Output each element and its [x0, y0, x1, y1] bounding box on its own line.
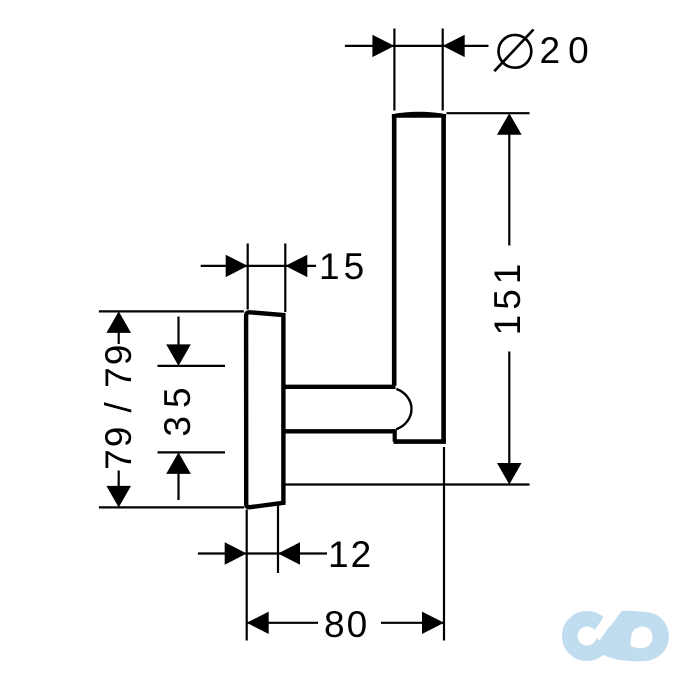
dim 35 top reference line [158, 365, 226, 367]
dim 35 bottom arrow [166, 452, 191, 474]
arm-rod fillet bulge [396, 389, 411, 429]
dim 12 extension line left [246, 510, 248, 641]
dim Ø20 right arrow [443, 35, 465, 57]
watermark logo C ring [570, 619, 605, 654]
dim 15 extension line right [284, 244, 286, 313]
dim 79/79 bottom reference line [99, 506, 244, 508]
dim 12 right arrow [278, 542, 300, 564]
dim 80 dimension line left segment [247, 622, 318, 624]
watermark logo D hole [631, 626, 653, 648]
dim 80 extension line right [443, 447, 445, 641]
wall plate outline [246, 312, 283, 507]
diameter symbol slash [494, 30, 533, 72]
dim Ø20 extension line left [393, 29, 395, 111]
dim 12 extension line right [277, 505, 279, 573]
dim 79/79 dimension line upper segment [118, 330, 120, 344]
arm top line [285, 385, 396, 389]
dim 15 extension line left [247, 244, 249, 310]
svg-text:79 / 79: 79 / 79 [98, 343, 139, 470]
watermark logo crossing band and D body [594, 611, 669, 662]
dim 15 right arrow [285, 255, 307, 277]
dim 80 right arrow [422, 612, 444, 634]
rod bottom cap [394, 439, 446, 444]
dim Ø20 left arrow [372, 35, 394, 57]
dim 35 top arrow [166, 344, 191, 366]
svg-text:35: 35 [157, 379, 198, 436]
svg-text:12: 12 [328, 534, 373, 575]
dim Ø20 extension line right [442, 29, 444, 111]
dim 12 dimension line [198, 552, 327, 554]
dim 35 bottom reference line [158, 451, 226, 453]
dim Ø20 dimension line [345, 45, 489, 47]
rod top cap [392, 112, 446, 118]
dim 151 dimension line upper segment [508, 130, 510, 246]
diameter symbol circle [499, 35, 532, 68]
svg-text:80: 80 [324, 604, 369, 645]
svg-text:151: 151 [487, 259, 528, 336]
dim 79/79 top reference line [99, 310, 244, 312]
dim 151 dimension line lower segment [508, 352, 510, 469]
dim 151 top arrow [497, 113, 522, 135]
arm-rod step [393, 429, 397, 441]
svg-text:15: 15 [319, 246, 368, 287]
dim 12 left arrow [225, 542, 247, 564]
rod right edge [441, 114, 446, 441]
dim 151 bottom arrow [497, 463, 522, 485]
watermark logo notch [596, 612, 614, 638]
dim 80 left arrow [247, 612, 269, 634]
dim 79/79 top arrow [106, 311, 131, 333]
rod left edge [392, 114, 397, 386]
dim 15 dimension line [201, 265, 316, 267]
arm bottom line [285, 429, 395, 433]
dim 35 lower tail line [177, 473, 179, 501]
dim 15 left arrow [226, 255, 248, 277]
dim 79/79 dimension line lower segment [118, 471, 120, 489]
dim 35 upper tail line [177, 317, 179, 347]
dim 151 bottom reference line [286, 483, 530, 485]
svg-text:20: 20 [540, 30, 597, 71]
dim 79/79 bottom arrow [106, 486, 131, 508]
dim 80 dimension line right segment [381, 622, 444, 624]
dim 151 top reference line [447, 112, 530, 114]
